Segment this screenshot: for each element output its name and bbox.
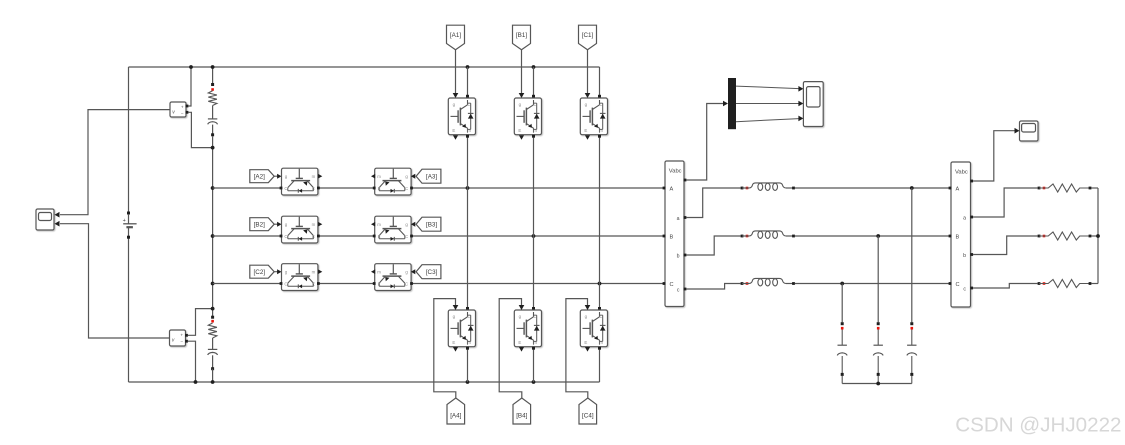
svg-text:C: C	[468, 314, 471, 319]
port Rc right	[1089, 282, 1092, 285]
IGBT QA4 (lower switch)	[448, 310, 475, 347]
wire bottom DC bus	[129, 381, 600, 383]
wire tag [C1] to gate	[587, 50, 589, 94]
wire left rail upper segment	[128, 67, 130, 213]
arrow into scope SC1 input 2	[55, 221, 60, 227]
svg-text:B: B	[670, 235, 674, 241]
wire Ra to star bus	[1092, 187, 1099, 189]
svg-text:m: m	[467, 128, 471, 133]
wire row c to measurement M2	[795, 283, 950, 285]
wire phase A leg middle	[467, 138, 469, 309]
junction bottom bus / phase A leg	[466, 380, 470, 384]
svg-text:[B3]: [B3]	[426, 222, 437, 229]
svg-text:CSDN @JHJ0222: CSDN @JHJ0222	[955, 414, 1121, 437]
port U2 minus	[185, 340, 188, 343]
load resistor Ra	[1039, 184, 1090, 192]
load resistor Rb	[1039, 232, 1090, 240]
wire U1 plus to top bus	[188, 67, 191, 106]
arrow gate QA4	[453, 305, 459, 310]
red marker Rc	[1043, 282, 1046, 285]
port Rb right	[1089, 235, 1092, 238]
port QB4 C	[532, 307, 535, 310]
port QA3 C	[410, 187, 413, 190]
junction top bus / U1 plus	[189, 65, 193, 69]
arrow scope SC2 input 1	[798, 86, 803, 92]
svg-text:−: −	[180, 339, 183, 344]
IGBT QA1 (upper switch)	[448, 98, 475, 135]
wire phase A leg upper	[467, 67, 469, 96]
port QA3 E	[373, 187, 376, 190]
svg-text:+: +	[123, 218, 126, 224]
port QB3 E	[373, 235, 376, 238]
port QA4 C	[466, 307, 469, 310]
arrow QC3 m output	[371, 269, 375, 274]
inductor Lc	[742, 278, 794, 286]
wire row A right segment	[412, 187, 663, 189]
wire tag [A2] to gate	[274, 175, 277, 177]
junction midpoint / row A	[211, 186, 215, 190]
port Lc left	[741, 282, 744, 285]
port M2 out c	[970, 287, 973, 290]
wire tag [A3] to gate	[412, 175, 415, 177]
svg-text:[A1]: [A1]	[450, 32, 461, 39]
arrow gate QC2	[277, 269, 281, 274]
wire row C right segment	[412, 283, 663, 285]
battery DC voltage source E1	[123, 212, 137, 239]
port U2 plus	[185, 334, 188, 337]
wire load star bus	[1097, 188, 1099, 284]
svg-text:v: v	[172, 110, 175, 116]
svg-text:[C3]: [C3]	[426, 269, 438, 276]
wire row B left segment	[213, 235, 280, 237]
svg-text:E: E	[312, 234, 315, 239]
port M2 out b	[970, 253, 973, 256]
svg-text:m: m	[533, 128, 537, 133]
wire row B middle segment	[320, 235, 374, 237]
arrow QC4 E output	[585, 347, 590, 352]
wire phase C leg lower	[599, 350, 601, 383]
IGBT QB2 (midpoint switch left)	[282, 216, 318, 243]
junction top bus / phase A leg	[466, 65, 470, 69]
From tag [B3]	[416, 217, 441, 231]
wire tag [A1] to gate	[455, 50, 457, 94]
junction load star point	[1096, 234, 1100, 238]
junction midpoint / U2 plus	[211, 307, 215, 311]
red marker La	[746, 187, 749, 190]
From tag [C2]	[250, 265, 274, 278]
wire M2 a to load row	[973, 188, 1037, 217]
port M1 Vabc out	[684, 179, 687, 182]
wire M2 Vabc to scope SC3	[973, 131, 1015, 181]
wire row A middle segment	[320, 187, 374, 189]
arrow gate QB4	[519, 305, 525, 310]
arrow into demux	[723, 101, 728, 107]
svg-text:E: E	[518, 340, 521, 345]
port M2 input A	[949, 187, 952, 190]
svg-text:[C4]: [C4]	[582, 413, 594, 420]
port QC2 E	[317, 282, 320, 285]
port QA1 m	[466, 135, 469, 138]
wire U2 plus to midpoint	[188, 309, 213, 336]
wire row b to measurement M2	[795, 235, 950, 237]
IGBT QC4 (lower switch)	[580, 310, 607, 347]
filter capacitor Cb	[873, 236, 883, 384]
svg-text:E: E	[584, 340, 587, 345]
From tag [C1]	[579, 25, 597, 50]
scope SC1 (DC-link voltages)	[36, 209, 54, 230]
arrow gate QA2	[277, 174, 281, 179]
port M1 input A	[663, 187, 666, 190]
svg-text:[C1]: [C1]	[582, 32, 594, 39]
svg-text:m: m	[533, 340, 537, 345]
port QC4 m	[598, 347, 601, 350]
port U1 minus	[186, 111, 189, 114]
voltmeter U2 (lower DC-link voltage)	[170, 330, 186, 346]
svg-text:a: a	[677, 216, 680, 222]
arrow QC2 m output	[318, 269, 322, 274]
port Lb left	[741, 235, 744, 238]
IGBT QC1 (upper switch)	[580, 98, 607, 135]
svg-text:C: C	[468, 102, 471, 107]
junction top bus / phase B leg	[532, 65, 536, 69]
svg-text:E: E	[452, 128, 455, 133]
wire demux out 1 to scope	[736, 86, 799, 89]
junction row A / phase leg	[466, 186, 470, 190]
svg-text:+: +	[180, 333, 183, 338]
port Lc right	[792, 282, 795, 285]
svg-text:C: C	[534, 102, 537, 107]
svg-text:E: E	[312, 282, 315, 287]
filter capacitor Cc	[837, 284, 847, 384]
port M2 Vabc out	[970, 180, 973, 183]
arrow gate QA1	[453, 93, 459, 98]
svg-text:m: m	[377, 222, 381, 227]
wire demux out 2 to scope	[736, 103, 799, 105]
arrow scope SC2 input 3	[798, 116, 803, 122]
wire row A left segment	[213, 187, 280, 189]
svg-text:C: C	[956, 282, 960, 288]
svg-text:C: C	[405, 186, 408, 191]
port Ra left	[1038, 187, 1041, 190]
arrow QA4 E output	[453, 347, 458, 352]
port QC2 C	[280, 282, 283, 285]
svg-text:B: B	[956, 235, 960, 241]
svg-text:A: A	[670, 187, 674, 193]
port QC3 E	[373, 282, 376, 285]
port M2 input C	[949, 282, 952, 285]
arrow QA1 E output	[453, 135, 458, 140]
From tag [A4]	[447, 398, 465, 424]
wire demux out 3 to scope	[736, 119, 799, 122]
arrow gate QB1	[519, 93, 525, 98]
port M2 input B	[949, 235, 952, 238]
wire capacitor star bus	[842, 383, 912, 385]
port QB1 C	[532, 95, 535, 98]
svg-text:C: C	[600, 314, 603, 319]
arrow gate QA3	[411, 174, 415, 179]
port La left	[741, 187, 744, 190]
port QA1 C	[466, 95, 469, 98]
svg-text:m: m	[599, 128, 603, 133]
svg-text:m: m	[377, 174, 381, 179]
svg-text:E: E	[378, 234, 381, 239]
IGBT QA3 (midpoint switch right)	[375, 168, 411, 195]
port Rb left	[1038, 235, 1041, 238]
svg-text:m: m	[312, 222, 316, 227]
watermark text	[955, 414, 1121, 437]
load resistor Rc	[1039, 280, 1090, 288]
wire midpoint rail top stub	[212, 67, 214, 84]
svg-text:[B2]: [B2]	[254, 222, 265, 229]
IGBT QB1 (upper switch)	[514, 98, 541, 135]
RC snubber branch RC2 (lower DC-link)	[208, 316, 218, 371]
scope SC3 (load voltages)	[1020, 121, 1039, 141]
IGBT QB4 (lower switch)	[514, 310, 541, 347]
svg-text:C: C	[600, 102, 603, 107]
svg-text:c: c	[963, 286, 966, 292]
IGBT QB3 (midpoint switch right)	[375, 216, 411, 243]
arrow gate QC4	[585, 305, 591, 310]
wire M1 Vabc to demux	[686, 104, 723, 181]
wire tag [B4] to gate QB4	[499, 299, 522, 398]
port QB2 E	[317, 235, 320, 238]
wire M1 a to inductor row	[686, 188, 740, 218]
arrow scope SC3 input	[1015, 128, 1020, 134]
port Lb right	[792, 235, 795, 238]
svg-text:[B4]: [B4]	[516, 413, 527, 420]
svg-text:m: m	[599, 340, 603, 345]
junction bottom bus / phase B leg	[532, 380, 536, 384]
junction capacitor star point	[876, 382, 880, 386]
svg-text:E: E	[452, 340, 455, 345]
wire M2 c to load row	[973, 284, 1037, 289]
junction row c / filter cap	[840, 282, 844, 286]
red marker Ra	[1043, 187, 1046, 190]
wire phase B leg lower	[533, 350, 535, 383]
port QC4 C	[598, 307, 601, 310]
arrow QB1 E output	[519, 135, 524, 140]
port QB3 C	[410, 235, 413, 238]
arrow QA3 m output	[371, 174, 375, 179]
From tag [A3]	[416, 169, 441, 183]
port M1 out b	[684, 254, 687, 257]
svg-text:C: C	[284, 234, 287, 239]
junction midpoint / U1 minus	[211, 146, 215, 150]
inductor La	[742, 183, 794, 191]
wire tag [B2] to gate	[274, 223, 277, 225]
svg-text:C: C	[284, 282, 287, 287]
port M2 out a	[970, 216, 973, 219]
svg-text:+: +	[181, 105, 184, 110]
port M1 input C	[663, 282, 666, 285]
RC snubber branch RC1 (upper DC-link)	[208, 83, 218, 136]
wire tag [C4] to gate QC4	[566, 299, 588, 398]
wire M2 b to load row	[973, 236, 1037, 255]
svg-text:[A4]: [A4]	[450, 413, 461, 420]
arrow gate QC1	[585, 93, 591, 98]
port M1 out a	[684, 216, 687, 219]
arrow QA2 m output	[318, 174, 322, 179]
wire midpoint rail bottom stub	[212, 369, 214, 382]
port QA4 m	[466, 347, 469, 350]
svg-text:m: m	[467, 340, 471, 345]
wire phase A leg lower	[467, 350, 469, 383]
wire tag [C3] to gate	[412, 271, 415, 273]
wire row a to measurement M2	[795, 187, 950, 189]
port M1 out c	[684, 288, 687, 291]
arrow gate QB2	[277, 222, 281, 227]
svg-text:C: C	[670, 282, 674, 288]
arrow into scope SC1 input 1	[55, 212, 60, 218]
junction midpoint / row C	[211, 282, 215, 286]
wire tag [C2] to gate	[274, 271, 277, 273]
From tag [C3]	[416, 265, 441, 279]
port QC1 m	[598, 135, 601, 138]
junction midpoint / row B	[211, 234, 215, 238]
svg-text:E: E	[312, 186, 315, 191]
wire Rb to star bus	[1092, 235, 1099, 237]
wire tag [B3] to gate	[412, 223, 415, 225]
svg-text:v: v	[172, 338, 175, 344]
port Ra right	[1089, 187, 1092, 190]
port QB2 C	[280, 235, 283, 238]
port Rc left	[1038, 282, 1041, 285]
wire phase C leg middle	[599, 138, 601, 309]
wire top bus drop to phase C leg	[599, 67, 601, 96]
svg-text:[B1]: [B1]	[516, 32, 527, 39]
From tag [A2]	[250, 170, 274, 183]
port QC1 C	[598, 95, 601, 98]
wire tag [A4] to gate QA4	[434, 299, 456, 398]
svg-text:a: a	[963, 215, 966, 221]
wire U2 minus to bottom bus	[188, 341, 196, 382]
From tag [B4]	[513, 398, 531, 424]
IGBT QC3 (midpoint switch right)	[375, 264, 411, 291]
svg-text:E: E	[518, 128, 521, 133]
three-phase V-I measurement block M2	[951, 162, 971, 307]
svg-text:A: A	[956, 187, 960, 193]
red marker Lb	[746, 235, 749, 238]
wire row C left segment	[213, 283, 280, 285]
junction row a / filter cap	[910, 186, 914, 190]
wire Rc to star bus	[1092, 283, 1099, 285]
From tag [B2]	[250, 218, 274, 231]
svg-text:C: C	[405, 282, 408, 287]
svg-text:b: b	[963, 253, 966, 259]
svg-text:[A3]: [A3]	[426, 174, 437, 181]
port U1 plus	[186, 105, 189, 108]
svg-text:b: b	[677, 253, 680, 259]
svg-text:m: m	[312, 174, 316, 179]
port QA2 E	[317, 187, 320, 190]
svg-text:−: −	[181, 111, 184, 116]
wire M1 b to inductor row	[686, 236, 740, 255]
svg-text:E: E	[378, 186, 381, 191]
svg-text:c: c	[677, 287, 680, 293]
filter capacitor Ca	[907, 188, 917, 384]
inductor Lb	[742, 231, 794, 239]
svg-text:Vabc: Vabc	[669, 169, 682, 175]
svg-text:C: C	[534, 314, 537, 319]
port QC3 C	[410, 282, 413, 285]
svg-text:E: E	[378, 282, 381, 287]
wire row C middle segment	[320, 283, 374, 285]
port M1 input B	[663, 235, 666, 238]
From tag [B1]	[513, 25, 531, 50]
From tag [A1]	[447, 25, 465, 50]
scope SC2 (inverter voltages)	[803, 82, 823, 127]
three-phase V-I measurement block M1	[665, 161, 684, 307]
arrow gate QB3	[411, 222, 415, 227]
svg-text:m: m	[377, 270, 381, 275]
svg-text:C: C	[405, 234, 408, 239]
wire phase B leg middle	[533, 138, 535, 309]
wire left rail lower segment	[128, 237, 130, 382]
wire top DC bus	[129, 66, 600, 68]
junction row b / filter cap	[876, 234, 880, 238]
demux D1	[728, 78, 736, 129]
voltmeter U1 (upper DC-link voltage)	[170, 102, 186, 117]
svg-text:m: m	[312, 270, 316, 275]
port QB1 m	[532, 135, 535, 138]
junction bottom bus / RC2	[211, 380, 215, 384]
junction row C / phase leg	[598, 282, 602, 286]
arrow QB3 m output	[371, 222, 375, 227]
arrow QB4 E output	[519, 347, 524, 352]
arrow scope SC2 input 2	[798, 101, 803, 107]
arrow QB2 m output	[318, 222, 322, 227]
port QB4 m	[532, 347, 535, 350]
From tag [C4]	[579, 398, 597, 424]
junction row B / phase leg	[532, 234, 536, 238]
junction bottom bus / U2 minus	[194, 380, 198, 384]
red marker Rb	[1043, 235, 1046, 238]
arrow QC1 E output	[585, 135, 590, 140]
wire phase B leg upper	[533, 67, 535, 96]
IGBT QC2 (midpoint switch left)	[282, 264, 318, 291]
port QA2 C	[280, 187, 283, 190]
IGBT QA2 (midpoint switch left)	[282, 168, 318, 195]
svg-text:Vabc: Vabc	[955, 170, 968, 176]
red marker Lc	[746, 282, 749, 285]
arrow gate QC3	[411, 269, 415, 274]
svg-text:E: E	[584, 128, 587, 133]
wire U1 minus to midpoint	[188, 112, 212, 147]
wire tag [B1] to gate	[521, 50, 523, 94]
wire U1 output to scope	[60, 110, 170, 215]
svg-text:C: C	[284, 186, 287, 191]
svg-text:[A2]: [A2]	[254, 174, 265, 181]
wire M1 c to inductor row	[686, 284, 740, 290]
svg-text:[C2]: [C2]	[254, 269, 266, 276]
wire row B right segment	[412, 235, 663, 237]
junction top bus / RC1	[211, 65, 215, 69]
wire U2 output to scope	[60, 224, 170, 338]
port La right	[792, 187, 795, 190]
wire midpoint rail middle segment	[212, 136, 214, 317]
